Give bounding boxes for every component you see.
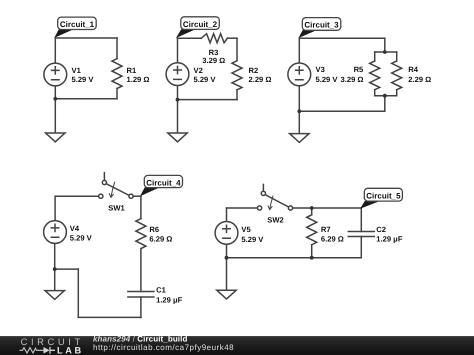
label Circuit_2 xyxy=(181,17,220,30)
svg-text:1.29 Ω: 1.29 Ω xyxy=(127,75,150,84)
flag Circuit_5 xyxy=(360,201,380,209)
wire C2 bottom xyxy=(360,237,362,258)
switch SW2 arrow xyxy=(268,196,273,210)
svg-text:R5: R5 xyxy=(354,65,364,74)
resistor R7 xyxy=(307,215,317,245)
switch SW1 lever xyxy=(106,184,129,196)
voltage source V5 xyxy=(215,222,238,245)
wire bottom C5 xyxy=(227,257,362,259)
wire top-right C2 xyxy=(227,37,237,39)
wire right C1 (bottom of R1) xyxy=(116,89,118,99)
ground G5 xyxy=(217,290,236,299)
ground G2 xyxy=(168,133,187,142)
svg-text:1.29 μF: 1.29 μF xyxy=(376,235,403,244)
wire C3 R4 bottom stub xyxy=(396,90,398,96)
wire C3 R4 top stub xyxy=(396,52,398,61)
flag Circuit_2 xyxy=(176,29,196,38)
svg-text:V4: V4 xyxy=(70,224,80,233)
wire SW2 to node xyxy=(293,207,312,209)
switch SW1 right contact xyxy=(129,194,133,198)
wire left C1 (top of V1) xyxy=(54,38,56,63)
voltage source V4 xyxy=(44,221,67,244)
wire left C1 (bottom of V1 to ground node) xyxy=(54,86,56,133)
switch SW2 throw stub xyxy=(262,184,264,191)
switch SW1 arrow xyxy=(109,182,114,197)
wire left C2 (top of V2) xyxy=(177,38,179,63)
wire V4 to SW1 xyxy=(55,195,99,197)
svg-text:V5: V5 xyxy=(241,225,251,234)
logo diode bar xyxy=(50,347,55,354)
ground G4 xyxy=(45,291,64,300)
wire V4 bottom xyxy=(54,243,56,269)
resistor R3 xyxy=(201,34,227,43)
svg-text:3.29 Ω: 3.29 Ω xyxy=(202,56,225,65)
node B5 xyxy=(310,206,314,210)
svg-text:Circuit_5: Circuit_5 xyxy=(366,191,401,200)
logo diode glyph xyxy=(44,347,50,354)
resistor R1 xyxy=(112,59,122,89)
wire right C2 (top of R2) xyxy=(236,38,238,61)
wire V4 top vertical xyxy=(54,196,56,220)
svg-text:Circuit_4: Circuit_4 xyxy=(146,178,181,187)
capacitor C1 xyxy=(128,292,154,298)
svg-text:C2: C2 xyxy=(376,225,386,234)
svg-text:5.29 V: 5.29 V xyxy=(72,75,95,84)
wire ground stub C4 xyxy=(54,269,56,291)
wire SW1 to corner xyxy=(133,195,141,197)
node B3 top xyxy=(383,50,387,54)
label Circuit_3 xyxy=(302,18,341,31)
wire to node A4 xyxy=(55,268,79,270)
node A2 xyxy=(176,98,180,102)
switch SW1 upper contact xyxy=(102,180,106,184)
svg-text:6.29 Ω: 6.29 Ω xyxy=(149,235,172,244)
switch SW2 upper contact xyxy=(261,191,265,195)
node A5 xyxy=(225,256,229,260)
ground G3 xyxy=(290,134,309,143)
svg-text:LAB: LAB xyxy=(57,346,84,355)
svg-text:R1: R1 xyxy=(127,66,137,75)
flag Circuit_4 xyxy=(140,187,160,196)
voltage source V3 xyxy=(288,63,311,86)
label Circuit_5 xyxy=(364,188,402,201)
wire right C2 (bottom of R2) xyxy=(236,90,238,100)
wire R7 bottom xyxy=(311,245,313,258)
svg-text:R2: R2 xyxy=(249,66,259,75)
wire R7 top xyxy=(311,208,313,215)
wire left C3 (bottom of V3 to ground) xyxy=(298,86,300,134)
switch SW2 right contact xyxy=(288,206,292,210)
node C5b xyxy=(310,256,314,260)
svg-text:SW2: SW2 xyxy=(267,216,283,225)
resistor R4 xyxy=(392,61,402,90)
svg-text:Circuit_3: Circuit_3 xyxy=(304,20,339,29)
voltage source V1 xyxy=(44,63,67,86)
wire bottom C4 xyxy=(78,316,141,318)
node B3 bottom xyxy=(383,94,387,98)
wire V5 top vertical xyxy=(226,208,228,222)
svg-text:C1: C1 xyxy=(156,285,166,294)
wire C3 top bar xyxy=(375,51,397,53)
wire C1 bottom xyxy=(140,297,142,317)
svg-text:2.29 Ω: 2.29 Ω xyxy=(408,75,431,84)
svg-text:3.29 Ω: 3.29 Ω xyxy=(341,75,364,84)
svg-text:Circuit_2: Circuit_2 xyxy=(183,20,218,29)
svg-text:R4: R4 xyxy=(408,65,418,74)
wire top C3 xyxy=(299,37,385,39)
wire V5 bottom xyxy=(226,244,228,257)
wire top C1 xyxy=(55,37,117,39)
label Circuit_1 xyxy=(58,17,96,29)
logo resistor glyph xyxy=(20,348,44,353)
wire top-left C2 xyxy=(178,37,202,39)
wire node to corner C5 xyxy=(312,207,362,209)
wire left C3 (top of V3) xyxy=(298,38,300,63)
svg-text:Circuit_1: Circuit_1 xyxy=(60,20,95,29)
wire C2 top xyxy=(360,208,362,232)
switch SW2 lever xyxy=(265,195,289,207)
resistor R2 xyxy=(232,61,242,90)
wire C3 R5 top stub xyxy=(374,52,376,61)
svg-text:2.29 Ω: 2.29 Ω xyxy=(249,75,272,84)
wire R6 top xyxy=(140,196,142,218)
label Circuit_4 xyxy=(144,175,182,187)
resistor R6 xyxy=(136,219,146,249)
wire bottom C3 xyxy=(299,110,385,112)
svg-text:V2: V2 xyxy=(194,66,203,75)
wire C3 bottom stub from bar xyxy=(384,96,386,112)
switch SW2 left contact xyxy=(258,206,262,210)
switch SW1 throw stub xyxy=(103,173,105,180)
wire bottom C2 xyxy=(178,99,238,101)
svg-text:1.29 μF: 1.29 μF xyxy=(156,296,183,305)
wire left C2 (bottom of V2) xyxy=(177,86,179,134)
wire right C1 (top of R1) xyxy=(116,38,118,59)
svg-text:R7: R7 xyxy=(321,225,331,234)
svg-text:V3: V3 xyxy=(316,65,325,74)
svg-text:5.29 V: 5.29 V xyxy=(70,234,93,243)
flag Circuit_1 xyxy=(54,30,73,38)
svg-text:V1: V1 xyxy=(72,66,82,75)
svg-text:http://circuitlab.com/ca7pfy9e: http://circuitlab.com/ca7pfy9eurk48 xyxy=(93,343,234,352)
wire C3 bottom bar xyxy=(375,95,397,97)
wire V5 to SW2 xyxy=(227,207,258,209)
svg-text:5.29 V: 5.29 V xyxy=(241,235,264,244)
switch SW1 left contact xyxy=(99,194,103,198)
resistor R5 xyxy=(370,61,380,90)
flag Circuit_3 xyxy=(299,30,318,38)
wire ground stub C5 xyxy=(226,258,228,291)
footer bar xyxy=(0,336,474,355)
svg-text:SW1: SW1 xyxy=(108,203,125,212)
wire bottom C1 xyxy=(55,98,117,100)
wire bottom-left riser C4 xyxy=(77,269,79,317)
svg-text:5.29 V: 5.29 V xyxy=(316,75,339,84)
node A4 xyxy=(53,267,57,271)
svg-text:5.29 V: 5.29 V xyxy=(194,75,217,84)
capacitor C2 xyxy=(348,232,374,237)
wire R6 to C1 xyxy=(140,249,142,292)
svg-text:6.29 Ω: 6.29 Ω xyxy=(321,235,344,244)
node A3 xyxy=(297,109,301,113)
wire C3 R5 bottom stub xyxy=(374,90,376,96)
ground G1 xyxy=(46,133,65,142)
wire C3 top stub to parallel pair xyxy=(384,38,386,52)
voltage source V2 xyxy=(166,63,189,86)
node A1 xyxy=(53,97,57,101)
svg-text:R6: R6 xyxy=(149,225,159,234)
